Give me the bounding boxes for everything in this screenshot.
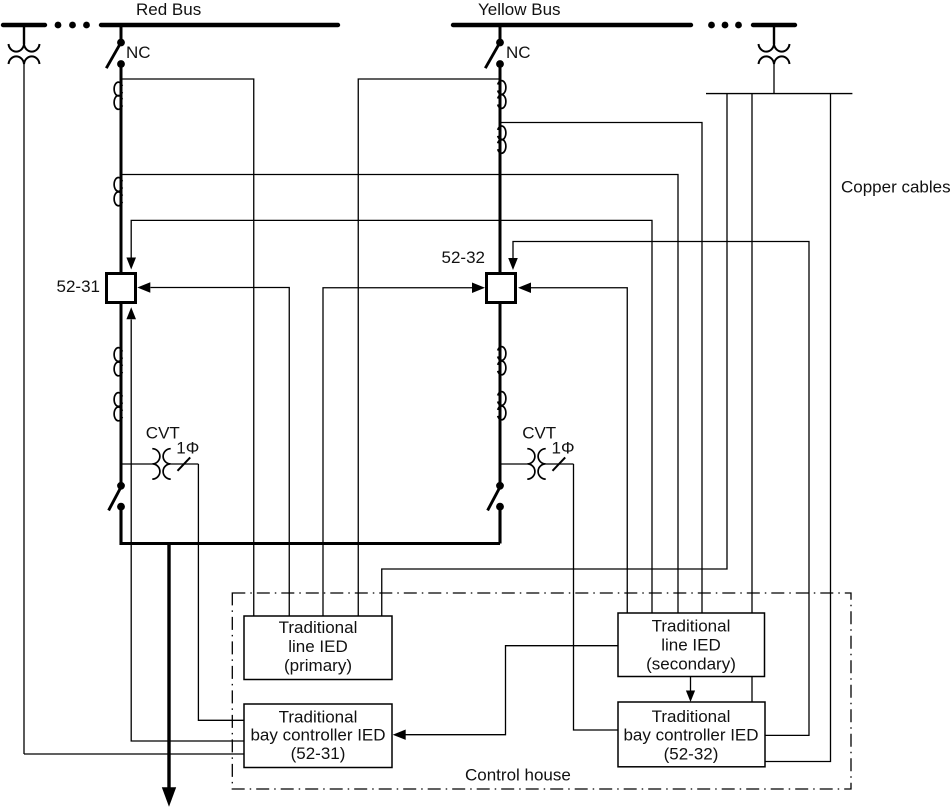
svg-text:Traditional: Traditional: [279, 708, 358, 727]
svg-text:CVT: CVT: [146, 424, 180, 443]
arrowhead into bay controller 52-31: [393, 730, 406, 740]
arrowhead into 52-32 top: [508, 258, 518, 270]
svg-text:bay controller IED: bay controller IED: [623, 726, 758, 745]
wire line IED secondary to 52-32 right: [531, 288, 627, 613]
wire T-left to bay controller 52-31: [24, 753, 244, 755]
arrowhead line out: [162, 787, 176, 806]
box bay controller IED 52-32: [618, 702, 765, 767]
CT red pair2: [114, 178, 122, 206]
control house boundary: [232, 593, 851, 789]
arrowhead into bay controller 52-32: [686, 691, 695, 703]
CVT yellow: [500, 449, 574, 479]
disconnect yellow line side: [488, 482, 504, 511]
CT yellow pair3: [498, 347, 506, 375]
svg-text:Traditional: Traditional: [652, 707, 731, 726]
wire bay controller 52-32 to 52-32 top: [513, 242, 809, 736]
yellow feeder main: [499, 64, 502, 486]
svg-text:Control house: Control house: [465, 766, 571, 785]
red bus: [101, 23, 338, 27]
transformer T-left: [9, 25, 40, 64]
copper cable bus: [706, 93, 852, 95]
svg-text:NC: NC: [506, 43, 531, 62]
svg-text:52-31: 52-31: [57, 277, 100, 296]
yellow bus: [453, 23, 691, 27]
ellipsis dots right: [708, 22, 742, 29]
box bay controller IED 52-31: [244, 704, 392, 768]
wire line IED primary to 52-31 right: [151, 288, 290, 617]
svg-text:(secondary): (secondary): [646, 655, 736, 674]
CT yellow pair1: [498, 81, 506, 109]
red feeder upper: [120, 25, 123, 43]
CVT red: [121, 449, 198, 479]
svg-text:Traditional: Traditional: [279, 618, 358, 637]
red feeder lower: [121, 507, 500, 544]
arrowhead into 52-31 right: [137, 282, 150, 292]
CT yellow pair2: [498, 126, 506, 153]
breaker 52-32: [487, 274, 516, 303]
wire red CT2 to line IED secondary: [121, 175, 678, 614]
CT red pair1: [114, 82, 122, 109]
arrowhead into 52-32 right: [518, 283, 531, 293]
svg-text:line IED: line IED: [288, 637, 348, 656]
yellow feeder lower: [498, 507, 501, 544]
bus stub left: [3, 23, 45, 27]
svg-text:52-32: 52-32: [442, 248, 485, 267]
arrowhead into 52-31 bottom: [126, 307, 136, 319]
svg-text:(primary): (primary): [284, 656, 352, 675]
breaker 52-31: [107, 274, 136, 303]
transformer T-right: [759, 25, 790, 64]
wire CVT red to bay controller 52-31: [198, 464, 244, 720]
box line IED primary: [244, 616, 392, 680]
copper cable 1 to line IED primary: [382, 94, 727, 616]
wire line IED secondary to bay controller 52-32 right link: [751, 677, 753, 703]
ellipsis dots left: [55, 22, 90, 29]
svg-text:(52-31): (52-31): [291, 744, 346, 763]
copper cable 2 to line IED secondary: [751, 94, 753, 613]
wire CVT yellow to bay controller 52-32: [574, 464, 619, 730]
svg-text:Yellow Bus: Yellow Bus: [478, 0, 561, 19]
wire yellow CT1 to line IED secondary: [500, 123, 702, 614]
wire line IED secondary to bay controller 52-32 arrow: [690, 677, 692, 692]
svg-text:line IED: line IED: [661, 636, 721, 655]
wire yellow NC node to line IED primary: [358, 79, 500, 616]
CT yellow pair4: [498, 392, 506, 420]
arrowhead into 52-31 top: [126, 258, 136, 270]
svg-text:1Φ: 1Φ: [176, 439, 199, 458]
svg-text:Traditional: Traditional: [652, 617, 731, 636]
CT red pair3: [114, 348, 122, 376]
wire bay controller 52-31 to 52-31 bottom: [131, 320, 244, 742]
svg-text:Copper cables: Copper cables: [841, 178, 950, 197]
disconnect red line side: [109, 482, 125, 511]
svg-text:(52-32): (52-32): [664, 745, 719, 764]
wire T-right to copper bus: [773, 64, 775, 94]
red feeder main: [120, 64, 123, 486]
arrowhead into 52-32 left: [472, 283, 485, 293]
svg-text:1Φ: 1Φ: [552, 439, 575, 458]
svg-text:NC: NC: [126, 43, 151, 62]
yellow feeder upper: [499, 25, 502, 43]
wire line IED primary to 52-32 left: [323, 288, 473, 616]
CT red pair4: [114, 393, 122, 421]
line feeder down: [167, 544, 170, 792]
wire red NC node to line IED primary: [121, 79, 254, 616]
wire T-left down: [23, 64, 25, 754]
disconnect NC red: [106, 39, 125, 69]
box line IED secondary: [618, 613, 765, 677]
svg-text:Red Bus: Red Bus: [136, 0, 201, 19]
svg-text:bay controller IED: bay controller IED: [250, 726, 385, 745]
wire line IED secondary to 52-31 top: [131, 220, 652, 613]
disconnect NC yellow: [485, 39, 504, 69]
copper cable 3 to bay controller 52-32: [765, 94, 831, 762]
bus stub right: [753, 23, 795, 27]
wire line IED secondary to bay controller 52-31: [405, 646, 618, 735]
